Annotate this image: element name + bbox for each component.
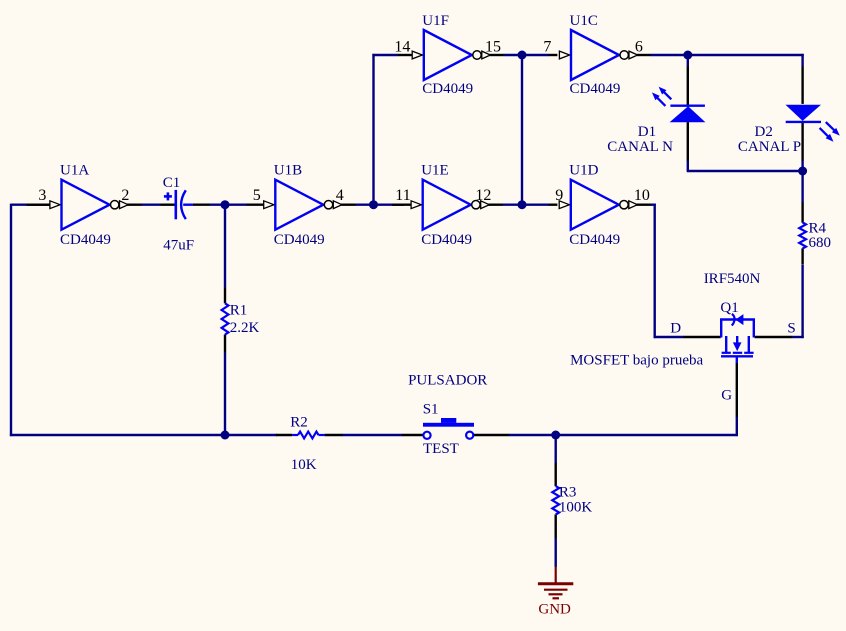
svg-text:47uF: 47uF [163, 238, 194, 254]
svg-text:IRF540N: IRF540N [704, 271, 761, 287]
svg-text:3: 3 [38, 187, 46, 204]
svg-text:R1: R1 [230, 303, 248, 319]
svg-text:D: D [670, 320, 681, 336]
svg-text:4: 4 [336, 187, 344, 204]
svg-text:12: 12 [475, 187, 491, 204]
svg-text:PULSADOR: PULSADOR [408, 373, 487, 389]
svg-text:S1: S1 [423, 402, 439, 418]
svg-text:CANAL N: CANAL N [607, 139, 673, 155]
svg-text:2: 2 [121, 187, 129, 204]
svg-text:CD4049: CD4049 [569, 232, 620, 248]
svg-text:2.2K: 2.2K [230, 320, 260, 336]
svg-text:10: 10 [634, 187, 650, 204]
svg-text:U1B: U1B [274, 163, 302, 179]
svg-text:6: 6 [635, 38, 643, 55]
svg-text:S: S [787, 320, 795, 336]
svg-text:9: 9 [555, 187, 563, 204]
svg-text:7: 7 [543, 38, 551, 55]
svg-text:CD4049: CD4049 [570, 81, 621, 97]
svg-text:R3: R3 [559, 484, 577, 500]
svg-text:U1F: U1F [422, 13, 449, 29]
svg-text:U1E: U1E [421, 163, 449, 179]
svg-text:D2: D2 [755, 124, 773, 140]
svg-text:5: 5 [253, 187, 261, 204]
svg-text:R2: R2 [290, 414, 308, 430]
svg-text:14: 14 [394, 38, 410, 55]
svg-text:Q1: Q1 [720, 300, 738, 316]
svg-text:TEST: TEST [423, 441, 459, 457]
svg-text:CD4049: CD4049 [421, 232, 472, 248]
svg-text:15: 15 [485, 38, 501, 55]
svg-text:D1: D1 [638, 124, 656, 140]
svg-text:MOSFET bajo prueba: MOSFET bajo prueba [570, 352, 703, 368]
svg-text:100K: 100K [559, 500, 593, 516]
svg-text:GND: GND [538, 602, 571, 618]
svg-text:U1A: U1A [60, 163, 89, 179]
svg-text:CD4049: CD4049 [60, 232, 111, 248]
svg-text:G: G [721, 388, 732, 404]
svg-text:U1D: U1D [569, 163, 598, 179]
svg-text:C1: C1 [163, 175, 181, 191]
svg-text:CD4049: CD4049 [422, 81, 473, 97]
svg-text:CD4049: CD4049 [274, 232, 325, 248]
svg-text:U1C: U1C [570, 13, 598, 29]
svg-text:680: 680 [809, 235, 832, 251]
svg-text:10K: 10K [291, 457, 317, 473]
svg-text:CANAL P: CANAL P [738, 139, 801, 155]
svg-text:11: 11 [395, 187, 410, 204]
